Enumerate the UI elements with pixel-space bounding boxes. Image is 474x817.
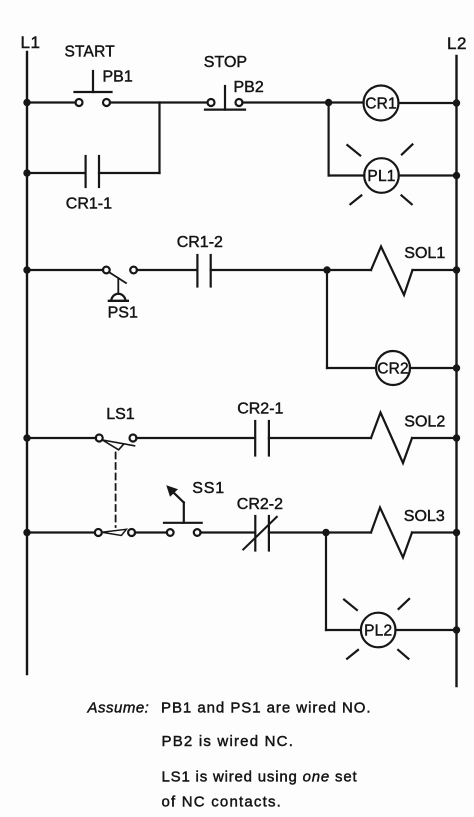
node CR2-L2 xyxy=(453,364,460,371)
solenoid SOL1 xyxy=(371,247,413,296)
solenoid SOL2 xyxy=(371,413,412,464)
pushbutton PB1 (START, NO) xyxy=(75,71,112,106)
power rail L1 xyxy=(26,52,28,674)
wire to CR2 xyxy=(327,367,376,369)
svg-text:LS1 is wired using one set: LS1 is wired using one set xyxy=(162,769,358,786)
svg-text:L2: L2 xyxy=(447,34,467,53)
node SOL3-L2 xyxy=(453,529,460,536)
svg-text:CR1-2: CR1-2 xyxy=(177,234,223,251)
coil CR2 xyxy=(376,351,410,385)
node rung2-L1 xyxy=(23,266,30,273)
svg-text:PB2 is wired NC.: PB2 is wired NC. xyxy=(162,733,295,750)
contact CR2-2 (NC) xyxy=(243,516,276,551)
node rung1-L2 xyxy=(453,99,460,106)
svg-text:PB2: PB2 xyxy=(234,79,264,96)
svg-text:STOP: STOP xyxy=(204,54,247,71)
pilot light PL1 xyxy=(347,144,412,204)
wire CR2-2 to SOL3 xyxy=(269,531,371,533)
node rung1-L1 xyxy=(23,99,30,106)
svg-text:SS1: SS1 xyxy=(192,480,225,497)
svg-text:CR2: CR2 xyxy=(377,360,409,377)
wire PB1 to PB2 xyxy=(110,101,208,103)
node rung3-L1 xyxy=(23,434,30,441)
pressure switch PS1 (NO) xyxy=(103,267,137,301)
wire SOL2 to L2 xyxy=(412,437,457,439)
selector switch SS1 xyxy=(164,485,202,536)
limit switch LS1 second contact (held closed) xyxy=(95,529,135,536)
wire SS1 to CR2-2 xyxy=(200,531,255,533)
node SOL1-L2 xyxy=(453,266,460,273)
solenoid SOL3 xyxy=(371,508,412,558)
wire branch down to PL1 xyxy=(328,103,330,176)
mechanical link dashed xyxy=(115,453,117,528)
svg-text:LS1: LS1 xyxy=(106,406,135,423)
wire PB2 to CR1 xyxy=(242,101,363,103)
contact CR1-2 (NO) xyxy=(197,255,210,287)
svg-text:CR1-1: CR1-1 xyxy=(66,196,112,213)
wire SOL3 to L2 xyxy=(412,531,457,533)
wire branch down to PL2 xyxy=(325,533,327,631)
wire rung1 L1 to PB1 xyxy=(27,101,76,103)
wire branch down to CR2 xyxy=(326,270,328,368)
wire CR2-1 to SOL2 xyxy=(269,437,371,439)
wire to PL1 xyxy=(329,174,365,176)
node PL2-L2 xyxy=(453,626,460,633)
wire to PL2 xyxy=(326,629,361,631)
svg-text:of NC contacts.: of NC contacts. xyxy=(162,794,283,811)
pushbutton PB2 (STOP, NC) xyxy=(205,86,245,110)
node rung4 branch xyxy=(322,529,329,536)
limit switch LS1 (NC set) xyxy=(96,435,137,450)
svg-text:START: START xyxy=(65,43,116,60)
wire PS1 to CR1-2 xyxy=(137,269,197,271)
wire CR1-1 to riser xyxy=(99,172,160,174)
node holding-L1 xyxy=(23,169,30,176)
svg-text:Assume:: Assume: xyxy=(87,700,150,717)
svg-text:CR1: CR1 xyxy=(365,95,397,112)
wire PL1 to L2 xyxy=(399,174,457,176)
contact CR2-1 (NO) xyxy=(255,421,269,456)
wire riser to rung1 xyxy=(158,103,160,174)
wire CR1 to L2 xyxy=(399,102,457,104)
wire LS1b to SS1 xyxy=(135,531,167,533)
wire CR1-2 to SOL1 xyxy=(211,269,371,271)
power rail L2 xyxy=(455,56,457,686)
node rung2 branch xyxy=(323,266,330,273)
svg-text:SOL2: SOL2 xyxy=(404,414,445,431)
node PL1-L2 xyxy=(453,172,460,179)
wire holding branch from L1 xyxy=(27,172,85,174)
svg-text:SOL3: SOL3 xyxy=(404,508,445,525)
svg-text:PB1 and PS1 are wired NO.: PB1 and PS1 are wired NO. xyxy=(161,700,372,717)
svg-text:PL2: PL2 xyxy=(364,622,392,639)
svg-text:CR2-1: CR2-1 xyxy=(237,400,283,417)
svg-text:PL1: PL1 xyxy=(367,168,395,185)
wire rung2 L1 to PS1 xyxy=(27,269,103,271)
svg-text:SOL1: SOL1 xyxy=(404,245,445,262)
wire LS1 to CR2-1 xyxy=(136,437,255,439)
wire rung4 L1 to LS1b xyxy=(27,531,95,533)
svg-text:PS1: PS1 xyxy=(108,305,138,322)
node rung1 branch xyxy=(325,99,332,106)
contact CR1-1 (NO) xyxy=(86,156,99,187)
pilot light PL2 xyxy=(344,599,409,659)
node SOL2-L2 xyxy=(453,434,460,441)
coil CR1 xyxy=(364,86,399,121)
wire PL2 to L2 xyxy=(396,629,457,631)
svg-text:PB1: PB1 xyxy=(103,68,133,85)
wire SOL1 to L2 xyxy=(413,269,457,271)
wire rung3 L1 to LS1 xyxy=(27,437,96,439)
svg-text:L1: L1 xyxy=(21,33,41,52)
wire CR2 to L2 xyxy=(410,367,457,369)
svg-text:CR2-2: CR2-2 xyxy=(237,496,283,513)
node rung4-L1 xyxy=(23,529,30,536)
